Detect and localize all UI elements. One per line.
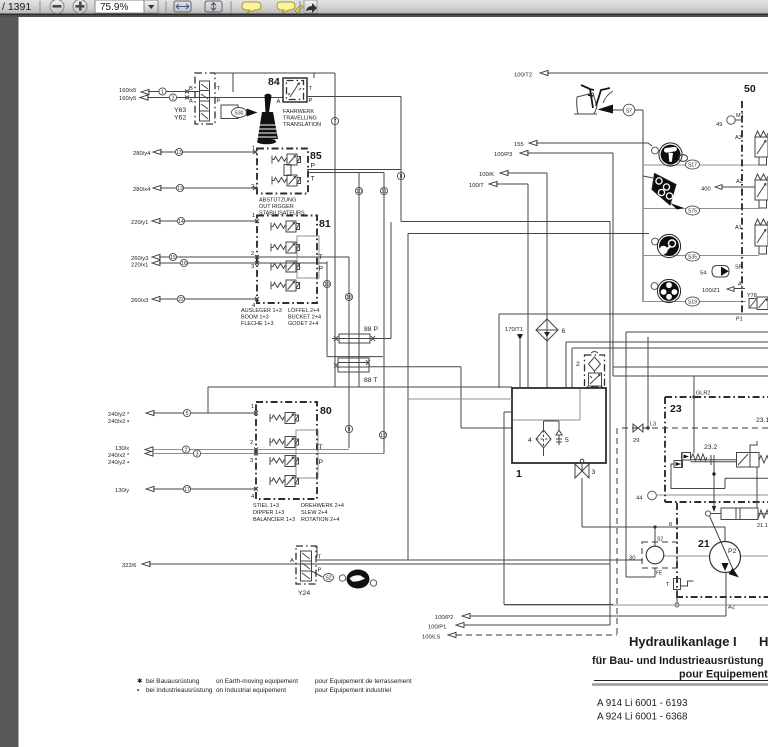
svg-text:A 924 Li 6001 - 6368: A 924 Li 6001 - 6368 <box>597 712 688 723</box>
svg-text:Hydraulikanlage I: Hydraulikanlage I <box>629 634 737 649</box>
svg-text:240/x2 ▪: 240/x2 ▪ <box>108 419 129 425</box>
svg-text:17: 17 <box>184 487 190 493</box>
svg-text:DREHWERK 2+4: DREHWERK 2+4 <box>301 503 344 509</box>
svg-text:P: P <box>318 568 322 574</box>
svg-text:54: 54 <box>700 271 707 277</box>
svg-text:pour Equipement de terrasseme: pour Equipement de terrassement <box>315 678 412 685</box>
svg-text:T: T <box>309 86 313 92</box>
svg-text:240/y2 *: 240/y2 * <box>108 412 130 418</box>
svg-text:280/x4: 280/x4 <box>133 187 151 193</box>
svg-text:4: 4 <box>528 437 532 444</box>
svg-text:pour Equipement industriel: pour Equipement industriel <box>315 687 391 694</box>
svg-text:14: 14 <box>178 219 184 225</box>
svg-text:T: T <box>318 555 322 561</box>
svg-text:S17: S17 <box>688 163 697 169</box>
svg-text:13: 13 <box>176 150 182 156</box>
svg-text:84: 84 <box>268 76 280 88</box>
svg-text:3: 3 <box>196 452 199 458</box>
svg-text:A: A <box>277 99 281 105</box>
svg-text:Y63: Y63 <box>174 107 186 114</box>
svg-text:ROTATION 2+4: ROTATION 2+4 <box>301 517 339 523</box>
svg-text:100/P1: 100/P1 <box>428 625 446 631</box>
svg-text:81: 81 <box>319 218 331 230</box>
svg-text:/ 1391: / 1391 <box>2 1 31 13</box>
svg-text:A: A <box>738 282 742 288</box>
svg-text:322/6: 322/6 <box>122 563 137 569</box>
svg-text:29: 29 <box>633 438 639 444</box>
svg-text:T: T <box>217 86 221 92</box>
svg-text:130/y: 130/y <box>115 488 129 494</box>
svg-text:FE: FE <box>656 571 663 577</box>
svg-text:L3: L3 <box>650 422 656 428</box>
svg-text:TRANSLATION: TRANSLATION <box>283 122 321 128</box>
svg-text:22: 22 <box>178 297 184 303</box>
svg-text:S7: S7 <box>626 109 632 115</box>
svg-text:S19: S19 <box>688 300 697 306</box>
svg-text:Y62: Y62 <box>174 115 186 122</box>
svg-text:M1: M1 <box>736 113 744 119</box>
svg-text:▪: ▪ <box>137 687 139 694</box>
svg-text:1: 1 <box>516 468 522 480</box>
svg-text:240/y2 ▪: 240/y2 ▪ <box>108 460 129 466</box>
svg-text:155: 155 <box>514 142 524 148</box>
svg-text:OUT RIGGER: OUT RIGGER <box>259 204 294 210</box>
svg-text:T: T <box>311 176 315 183</box>
svg-text:260/x3: 260/x3 <box>131 298 148 304</box>
svg-text:Y24: Y24 <box>298 590 310 597</box>
svg-text:49: 49 <box>716 122 722 128</box>
svg-text:44: 44 <box>636 496 643 502</box>
svg-text:1: 1 <box>251 404 254 410</box>
svg-text:160/x5: 160/x5 <box>119 88 136 94</box>
svg-text:23.2: 23.2 <box>704 444 717 451</box>
svg-text:on Earth-moving equipement: on Earth-moving equipement <box>216 678 298 685</box>
svg-text:TRAVELLING: TRAVELLING <box>283 116 317 122</box>
svg-text:on Industrial equipement: on Industrial equipement <box>216 687 286 694</box>
svg-text:GODET 2+4: GODET 2+4 <box>288 321 318 327</box>
svg-text:30: 30 <box>629 556 635 562</box>
svg-text:S35: S35 <box>688 255 697 261</box>
svg-text:BOOM 1+3: BOOM 1+3 <box>241 315 269 321</box>
svg-text:P2: P2 <box>728 548 737 555</box>
svg-text:2: 2 <box>250 440 253 446</box>
svg-text:A3: A3 <box>735 135 742 141</box>
svg-text:FAHRWERK: FAHRWERK <box>283 109 314 115</box>
svg-text:DIPPER 1+3: DIPPER 1+3 <box>253 510 284 516</box>
svg-text:100/P3: 100/P3 <box>494 152 512 158</box>
svg-text:1: 1 <box>161 90 164 96</box>
svg-text:S75: S75 <box>688 209 697 215</box>
svg-text:BUCKET 2+4: BUCKET 2+4 <box>288 315 321 321</box>
svg-text:100/P2: 100/P2 <box>435 615 453 621</box>
svg-text:220/x1: 220/x1 <box>131 263 148 269</box>
svg-text:GLR2: GLR2 <box>696 391 710 397</box>
svg-text:23: 23 <box>670 403 682 415</box>
svg-text:bei Industrieausrüstung: bei Industrieausrüstung <box>146 687 213 694</box>
svg-text:220/y1: 220/y1 <box>131 220 148 226</box>
svg-text:✱: ✱ <box>137 678 142 685</box>
svg-text:8: 8 <box>669 522 672 528</box>
svg-text:1: 1 <box>252 213 255 219</box>
svg-text:130/x: 130/x <box>115 446 129 452</box>
svg-text:A: A <box>189 99 193 105</box>
svg-text:P: P <box>311 163 316 170</box>
svg-text:400: 400 <box>701 187 711 193</box>
svg-text:2: 2 <box>185 448 188 454</box>
svg-text:T: T <box>319 444 323 451</box>
svg-text:FLECHE 1+3: FLECHE 1+3 <box>241 321 274 327</box>
svg-text:12: 12 <box>380 433 386 439</box>
svg-text:170/T1: 170/T1 <box>505 327 523 333</box>
svg-text:21.1: 21.1 <box>757 523 768 529</box>
svg-text:P1: P1 <box>736 317 743 323</box>
svg-text:280/y4: 280/y4 <box>133 151 151 157</box>
svg-text:S2: S2 <box>657 537 663 543</box>
svg-text:5: 5 <box>565 437 569 444</box>
svg-text:75.9%: 75.9% <box>100 2 128 13</box>
svg-text:160/y5: 160/y5 <box>119 96 136 102</box>
svg-text:100/LS: 100/LS <box>422 635 441 641</box>
svg-text:BALANCIER 1+3: BALANCIER 1+3 <box>253 517 295 523</box>
svg-text:A2: A2 <box>736 179 743 185</box>
svg-text:13: 13 <box>177 186 183 192</box>
svg-text:A1: A1 <box>735 225 742 231</box>
svg-text:3: 3 <box>250 458 253 464</box>
svg-text:P: P <box>309 98 313 104</box>
svg-text:15: 15 <box>170 255 176 261</box>
svg-text:100/T: 100/T <box>469 183 484 189</box>
svg-text:100/Z1: 100/Z1 <box>702 288 720 294</box>
svg-text:2: 2 <box>172 96 175 102</box>
svg-text:P: P <box>217 99 221 105</box>
svg-text:100/T2: 100/T2 <box>514 73 532 79</box>
svg-text:A 914 Li 6001 - 6193: A 914 Li 6001 - 6193 <box>597 698 688 709</box>
svg-text:3: 3 <box>251 264 254 270</box>
svg-text:ABSTÜTZUNG: ABSTÜTZUNG <box>259 197 296 204</box>
svg-text:85: 85 <box>310 150 322 162</box>
svg-text:pour Equipement i: pour Equipement i <box>679 669 768 681</box>
svg-text:B: B <box>189 86 193 92</box>
svg-text:100/K: 100/K <box>479 172 494 178</box>
svg-text:2: 2 <box>576 361 580 368</box>
svg-text:H: H <box>759 634 768 649</box>
svg-text:2: 2 <box>251 251 254 257</box>
svg-text:AUSLEGER 1+3: AUSLEGER 1+3 <box>241 308 282 314</box>
svg-text:P: P <box>319 266 324 273</box>
svg-text:240/x2 *: 240/x2 * <box>108 453 130 459</box>
svg-text:3: 3 <box>592 469 596 476</box>
svg-text:A: A <box>290 558 294 564</box>
svg-text:5: 5 <box>186 411 189 417</box>
svg-text:88 P: 88 P <box>364 326 378 333</box>
svg-text:SLEW 2+4: SLEW 2+4 <box>301 510 327 516</box>
svg-text:88 T: 88 T <box>364 377 377 384</box>
svg-text:50: 50 <box>744 83 756 95</box>
svg-text:T: T <box>319 254 323 261</box>
svg-text:260/y3: 260/y3 <box>131 256 148 262</box>
svg-text:6: 6 <box>562 328 566 335</box>
svg-text:16: 16 <box>181 261 187 267</box>
svg-text:80: 80 <box>320 405 332 417</box>
svg-text:für Bau- und Industrieausrüstu: für Bau- und Industrieausrüstung <box>592 655 764 667</box>
svg-text:LÖFFEL 2+4: LÖFFEL 2+4 <box>288 307 319 314</box>
svg-text:S30: S30 <box>235 111 244 117</box>
svg-text:P: P <box>319 459 324 466</box>
svg-text:21: 21 <box>698 538 710 550</box>
svg-text:SP: SP <box>735 265 743 271</box>
svg-text:STIEL 1+3: STIEL 1+3 <box>253 503 279 509</box>
svg-text:bei Bauausrüstung: bei Bauausrüstung <box>146 678 200 685</box>
svg-text:23.1: 23.1 <box>756 417 768 424</box>
svg-text:S2: S2 <box>325 576 331 582</box>
